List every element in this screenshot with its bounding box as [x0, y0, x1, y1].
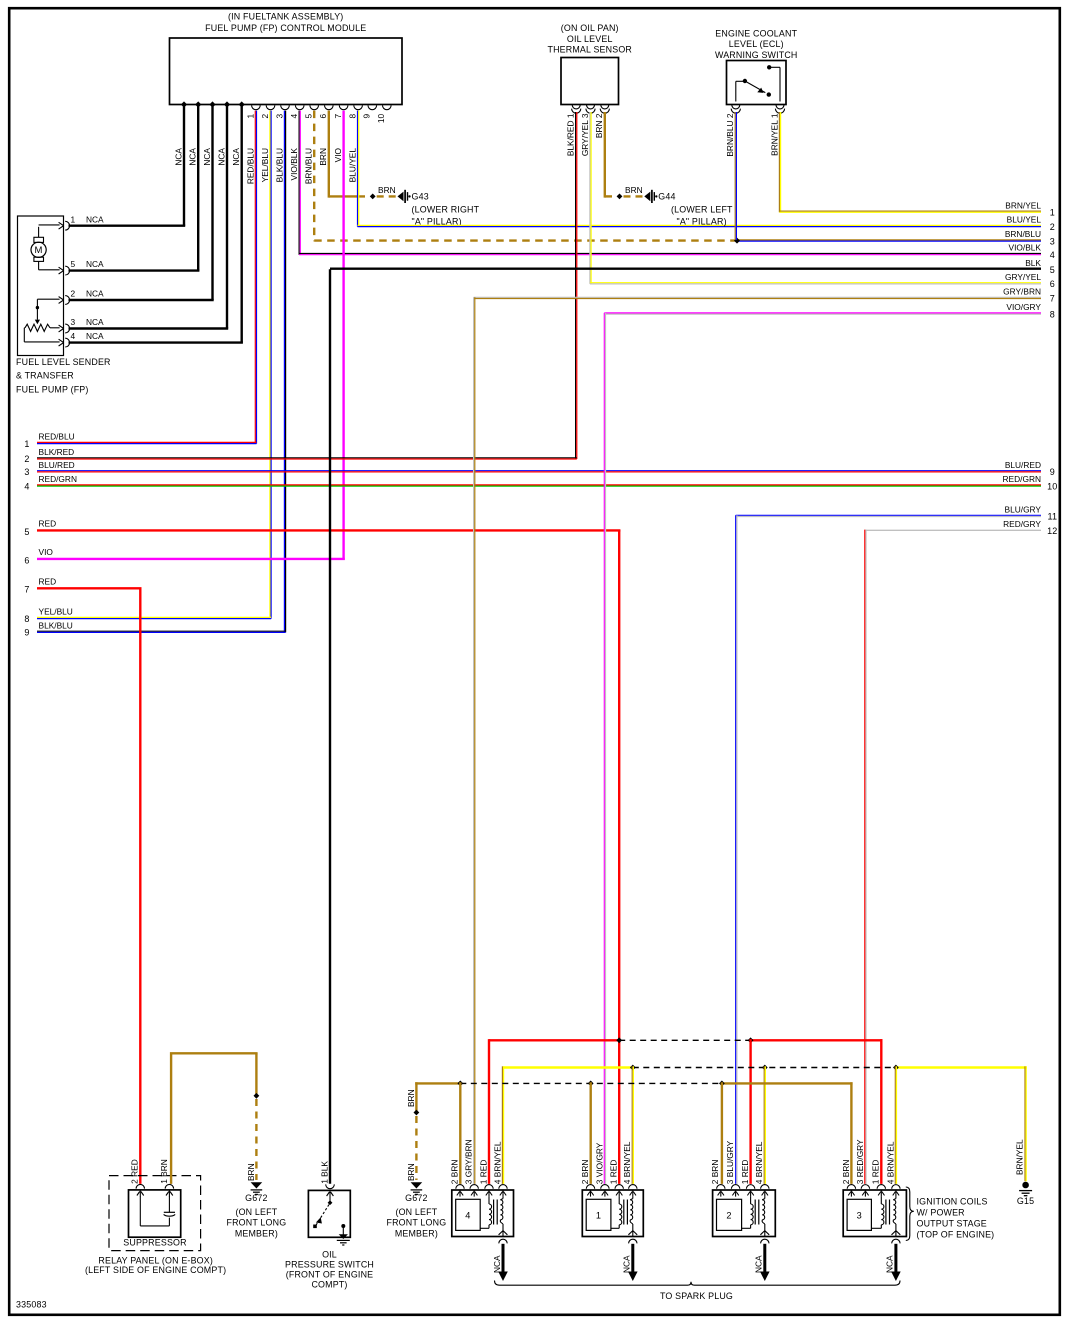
svg-text:3 RED/GRY: 3 RED/GRY: [855, 1139, 865, 1184]
svg-text:BRN/YEL 1: BRN/YEL 1: [769, 113, 779, 156]
svg-text:RELAY PANEL (ON E-BOX): RELAY PANEL (ON E-BOX): [98, 1255, 213, 1265]
svg-text:3: 3: [71, 317, 76, 327]
svg-text:NCA: NCA: [86, 289, 104, 299]
svg-text:BRN: BRN: [378, 185, 396, 195]
svg-text:YEL/BLU: YEL/BLU: [39, 607, 73, 617]
wire BRN/YEL ECL pin1 to right connector 1: [769, 112, 1054, 218]
engine coolant level switch box: [727, 61, 787, 105]
svg-text:(LEFT SIDE OF ENGINE COMPT): (LEFT SIDE OF ENGINE COMPT): [85, 1265, 226, 1275]
svg-text:IGNITION COILS: IGNITION COILS: [917, 1197, 988, 1207]
to spark plug caption: [660, 1291, 733, 1301]
wire BLK/RED sensor pin1 to left connector 2: [24, 112, 576, 464]
svg-text:BRN/BLU 2: BRN/BLU 2: [725, 113, 735, 156]
svg-text:2 BRN: 2 BRN: [580, 1160, 590, 1185]
wire BRN brown-bus to ground G672 (right): [406, 1082, 420, 1181]
svg-text:3: 3: [24, 467, 29, 477]
ignition coil 3 NCA spark output arrow: [885, 1239, 901, 1281]
wire VIO/BLK module pin4 to right connector 4: [289, 111, 1055, 260]
ignition coil 3 box: [843, 1185, 906, 1237]
svg-text:& TRANSFER: & TRANSFER: [16, 371, 74, 381]
svg-text:G43: G43: [412, 192, 429, 202]
ground G15: [1017, 1182, 1034, 1206]
svg-text:RED: RED: [39, 576, 57, 586]
svg-text:10: 10: [376, 113, 386, 123]
ignition coils brace: [906, 1187, 914, 1241]
svg-text:4: 4: [289, 113, 299, 118]
suppressor box: [129, 1190, 181, 1237]
svg-text:9: 9: [1050, 467, 1055, 477]
svg-text:G44: G44: [658, 192, 675, 202]
ignition coil 1 pin labels: [580, 1141, 632, 1184]
svg-text:RED: RED: [39, 518, 57, 528]
svg-text:9: 9: [24, 628, 29, 638]
oil pressure switch pin label: [319, 1161, 329, 1184]
svg-text:3: 3: [274, 113, 284, 118]
svg-text:2: 2: [260, 113, 270, 118]
svg-text:4 BRN/YEL: 4 BRN/YEL: [885, 1141, 895, 1184]
svg-text:FUEL LEVEL SENDER: FUEL LEVEL SENDER: [16, 357, 111, 367]
svg-text:GRY/BRN: GRY/BRN: [1003, 287, 1041, 297]
svg-text:MEMBER): MEMBER): [395, 1228, 438, 1238]
svg-text:4: 4: [1050, 250, 1055, 260]
wire BLK/BLU module pin3 to left connector 9: [24, 111, 285, 638]
suppressor pin labels: [130, 1159, 169, 1184]
svg-text:W/ POWER: W/ POWER: [917, 1208, 965, 1218]
svg-text:(IN FUELTANK ASSEMBLY): (IN FUELTANK ASSEMBLY): [228, 12, 343, 22]
wire GRY/YEL sensor pin3 to right connector 6: [580, 112, 1055, 289]
ignition coil 4 pin labels: [449, 1139, 502, 1184]
svg-text:NCA: NCA: [202, 148, 212, 166]
ignition coil 2 box: [713, 1185, 776, 1237]
svg-text:4: 4: [465, 1211, 470, 1221]
svg-text:(TOP OF ENGINE): (TOP OF ENGINE): [917, 1229, 995, 1239]
svg-text:G672: G672: [245, 1193, 267, 1203]
svg-text:1: 1: [24, 439, 29, 449]
svg-text:3 BLU/GRY: 3 BLU/GRY: [725, 1140, 735, 1184]
svg-text:7: 7: [333, 113, 343, 118]
svg-text:BLK/RED 1: BLK/RED 1: [566, 113, 576, 156]
ground G672 (left): [226, 1182, 286, 1238]
wire BRN/BLU ECL pin2 to junction: [725, 112, 736, 240]
ECL switch contact symbol: [736, 65, 780, 101]
wire NCA fuel-sender pin 2 to module: [69, 107, 214, 301]
svg-text:3 VIO/GRY: 3 VIO/GRY: [594, 1142, 604, 1184]
svg-text:9: 9: [362, 113, 372, 118]
module pin arcs 1-10: [252, 105, 392, 109]
svg-text:FUEL PUMP (FP): FUEL PUMP (FP): [16, 384, 89, 394]
wire BLU/RED left connector 3 to right connector 9: [24, 460, 1054, 477]
ignition coil 2 NCA spark output arrow: [754, 1239, 770, 1281]
wire RED left connector 5 down to ignition coil bus: [24, 518, 620, 1184]
svg-text:2: 2: [71, 289, 76, 299]
suppressor pin arcs: [136, 1184, 174, 1188]
fuel sender pin connectors: [59, 221, 70, 347]
wire BRN ignition coil brown bus: [415, 1081, 852, 1184]
svg-text:4 BRN/YEL: 4 BRN/YEL: [754, 1141, 764, 1184]
svg-text:1 RED: 1 RED: [740, 1160, 750, 1185]
fuel level sender box: [18, 216, 64, 356]
wire BRN module pin6 to ground G43: [318, 111, 365, 198]
svg-text:1: 1: [1050, 208, 1055, 218]
svg-text:NCA: NCA: [188, 148, 198, 166]
svg-text:FRONT LONG: FRONT LONG: [226, 1218, 286, 1228]
oil pressure switch pin arc: [326, 1184, 335, 1188]
svg-text:335083: 335083: [16, 1300, 47, 1310]
ECL switch pin arcs: [731, 105, 784, 113]
svg-text:1: 1: [245, 113, 255, 118]
wire RED left connector 7 down to suppressor pin2: [24, 576, 141, 1184]
ground G672 (right): [386, 1182, 446, 1238]
fuel pump control module caption: [205, 12, 366, 33]
svg-text:FUEL PUMP (FP) CONTROL MODULE: FUEL PUMP (FP) CONTROL MODULE: [205, 23, 366, 33]
svg-text:1 RED: 1 RED: [609, 1160, 619, 1185]
ignition coil 1 NCA spark output arrow: [622, 1239, 638, 1281]
svg-text:OIL: OIL: [322, 1250, 337, 1260]
wire GRY/BRN right connector 7 down to coil 4 pin3: [474, 287, 1055, 1184]
svg-text:G15: G15: [1017, 1196, 1034, 1206]
svg-text:12: 12: [1047, 526, 1057, 536]
svg-text:3: 3: [857, 1211, 862, 1221]
svg-text:RED/GRN: RED/GRN: [1003, 474, 1041, 484]
svg-text:M: M: [35, 245, 43, 256]
svg-text:PRESSURE SWITCH: PRESSURE SWITCH: [285, 1260, 374, 1270]
svg-text:NCA: NCA: [86, 331, 104, 341]
svg-text:BLK/RED: BLK/RED: [39, 447, 75, 457]
svg-text:BLU/YEL: BLU/YEL: [348, 148, 358, 183]
svg-text:NCA: NCA: [231, 148, 241, 166]
thermal sensor pin arcs: [572, 105, 610, 113]
svg-text:SUPPRESSOR: SUPPRESSOR: [123, 1237, 186, 1247]
svg-text:6: 6: [318, 113, 328, 118]
svg-text:BRN/YEL: BRN/YEL: [1005, 200, 1041, 210]
svg-text:NCA: NCA: [86, 259, 104, 269]
svg-text:2 BRN: 2 BRN: [841, 1160, 851, 1185]
oil level thermal sensor box: [561, 58, 619, 105]
wire RED/GRY right connector 12 down to coil 3 pin3: [865, 519, 1058, 1184]
svg-text:LEVEL (ECL): LEVEL (ECL): [729, 39, 784, 49]
wire NCA fuel-sender pin 3 to module: [69, 107, 229, 329]
svg-text:GRY/YEL: GRY/YEL: [1005, 272, 1041, 282]
svg-text:8: 8: [1050, 309, 1055, 319]
svg-text:FRONT LONG: FRONT LONG: [386, 1218, 446, 1228]
svg-text:RED/BLU: RED/BLU: [39, 432, 75, 442]
svg-text:NCA: NCA: [754, 1255, 764, 1273]
svg-text:1 BRN: 1 BRN: [159, 1159, 169, 1184]
svg-text:NCA: NCA: [885, 1255, 895, 1273]
svg-text:THERMAL SENSOR: THERMAL SENSOR: [547, 45, 632, 55]
svg-text:(ON LEFT: (ON LEFT: [235, 1207, 277, 1217]
svg-text:2: 2: [726, 1211, 731, 1221]
svg-text:1 BLK: 1 BLK: [319, 1161, 329, 1184]
wire YEL/BLU module pin2 to left connector 8: [24, 111, 271, 624]
relay panel dashed box: [109, 1176, 201, 1251]
svg-text:NCA: NCA: [173, 148, 183, 166]
svg-text:7: 7: [24, 585, 29, 595]
svg-text:BRN 2: BRN 2: [594, 113, 604, 138]
wire BRN suppressor pin1 to ground G672: [170, 1053, 259, 1184]
svg-text:8: 8: [24, 614, 29, 624]
ignition coil 4 box: [452, 1185, 514, 1237]
svg-text:RED/GRN: RED/GRN: [39, 474, 77, 484]
svg-text:BLK: BLK: [1025, 258, 1041, 268]
svg-text:ENGINE COOLANT: ENGINE COOLANT: [715, 28, 797, 38]
oil pressure switch captions: [285, 1250, 374, 1290]
svg-text:5: 5: [1050, 265, 1055, 275]
ignition coil 3 pin labels: [841, 1139, 896, 1184]
svg-text:2 BRN: 2 BRN: [710, 1160, 720, 1185]
svg-text:11: 11: [1047, 512, 1057, 522]
svg-text:MEMBER): MEMBER): [235, 1228, 278, 1238]
svg-text:RED/GRY: RED/GRY: [1003, 519, 1041, 529]
svg-text:2 RED: 2 RED: [130, 1159, 140, 1184]
module NCA pin diamonds: [181, 101, 245, 107]
svg-text:NCA: NCA: [216, 148, 226, 166]
svg-text:WARNING SWITCH: WARNING SWITCH: [715, 50, 798, 60]
svg-text:1: 1: [596, 1211, 601, 1221]
fuel pump motor M: [31, 225, 60, 270]
ground G43: [370, 185, 480, 226]
svg-text:GRY/YEL 3: GRY/YEL 3: [580, 113, 590, 156]
svg-text:10: 10: [1047, 481, 1057, 491]
wire RED ignition coil supply bus: [489, 1037, 883, 1184]
svg-text:BRN: BRN: [406, 1163, 416, 1181]
svg-text:OIL LEVEL: OIL LEVEL: [567, 34, 613, 44]
wire VIO/GRY right connector 8 down to coil 1 pin3: [604, 302, 1055, 1184]
svg-text:6: 6: [1050, 279, 1055, 289]
ground G44: [617, 185, 733, 226]
engine coolant level switch caption: [715, 28, 798, 60]
ignition coil 2 pin labels: [710, 1140, 764, 1184]
svg-text:(FRONT OF ENGINE: (FRONT OF ENGINE: [286, 1270, 374, 1280]
svg-text:YEL/BLU: YEL/BLU: [260, 148, 270, 182]
wire BLK right connector 5 down to oil pressure switch: [330, 258, 1055, 1184]
svg-text:BRN: BRN: [406, 1089, 416, 1107]
svg-text:BLK/BLU: BLK/BLU: [39, 620, 73, 630]
svg-text:NCA: NCA: [86, 214, 104, 224]
svg-text:5: 5: [71, 259, 76, 269]
svg-text:BLU/GRY: BLU/GRY: [1005, 505, 1042, 515]
oil pressure switch box: [308, 1190, 350, 1237]
svg-text:BLK/BLU: BLK/BLU: [274, 148, 284, 182]
svg-text:5: 5: [304, 113, 314, 118]
wire BRN sensor pin2 to ground G44: [594, 112, 612, 198]
svg-text:BRN/BLU: BRN/BLU: [304, 148, 314, 184]
wire NCA fuel-sender pin 5 to module: [69, 107, 200, 271]
svg-text:2 BRN: 2 BRN: [449, 1160, 459, 1185]
to spark plug brace: [495, 1281, 901, 1286]
ignition coils caption: [917, 1197, 995, 1240]
svg-text:VIO: VIO: [39, 547, 54, 557]
module pin numbers 1-10: [245, 113, 386, 123]
svg-text:BLU/YEL: BLU/YEL: [1007, 215, 1042, 225]
svg-text:BRN/YEL: BRN/YEL: [1014, 1139, 1024, 1175]
svg-text:4 BRN/YEL: 4 BRN/YEL: [622, 1141, 632, 1184]
svg-text:(ON LEFT: (ON LEFT: [395, 1207, 437, 1217]
svg-text:BRN: BRN: [625, 185, 643, 195]
svg-text:(LOWER RIGHT: (LOWER RIGHT: [412, 204, 480, 214]
svg-text:VIO: VIO: [333, 147, 343, 162]
svg-text:5: 5: [24, 527, 29, 537]
wire RED/GRN left connector 4 to right connector 10: [24, 474, 1057, 491]
wire BLU/GRY right connector 11 down to coil 2 pin3: [736, 505, 1057, 1184]
svg-text:8: 8: [348, 113, 358, 118]
svg-text:NCA: NCA: [492, 1255, 502, 1273]
svg-text:1 RED: 1 RED: [871, 1160, 881, 1185]
svg-text:1: 1: [71, 214, 76, 224]
svg-text:7: 7: [1050, 294, 1055, 304]
oil pressure switch contact symbol: [313, 1190, 350, 1245]
wire BRN/BLU module pin5 dashed to junction and right connector 3: [304, 111, 1055, 247]
wire NCA fuel-sender pin 4 to module: [69, 107, 243, 343]
svg-text:BRN/BLU: BRN/BLU: [1005, 229, 1041, 239]
svg-text:VIO/GRY: VIO/GRY: [1006, 302, 1041, 312]
svg-text:4: 4: [71, 331, 76, 341]
svg-text:TO SPARK PLUG: TO SPARK PLUG: [660, 1291, 733, 1301]
svg-text:NCA: NCA: [86, 317, 104, 327]
svg-text:OUTPUT STAGE: OUTPUT STAGE: [917, 1218, 987, 1228]
suppressor captions: [85, 1237, 226, 1275]
wire NCA fuel-sender pin 1 to module: [69, 107, 186, 226]
svg-text:4 BRN/YEL: 4 BRN/YEL: [492, 1141, 502, 1184]
svg-text:RED/BLU: RED/BLU: [245, 148, 255, 184]
ignition coil 4 NCA spark output arrow: [492, 1239, 508, 1281]
svg-text:3: 3: [1050, 236, 1055, 246]
svg-text:BRN: BRN: [246, 1163, 256, 1181]
svg-text:G672: G672: [405, 1193, 427, 1203]
svg-text:2: 2: [24, 454, 29, 464]
svg-text:BRN: BRN: [318, 148, 328, 166]
fuel sender caption: [16, 357, 111, 395]
wire RED/BLU module pin1 to left connector 1: [24, 111, 256, 449]
svg-text:1 RED: 1 RED: [478, 1160, 488, 1185]
svg-text:4: 4: [24, 481, 29, 491]
svg-text:(LOWER LEFT: (LOWER LEFT: [671, 204, 733, 214]
fuel pump control module box: [170, 38, 403, 105]
wire BRN/YEL bus to ground G15: [1014, 1066, 1026, 1181]
svg-text:COMPT): COMPT): [311, 1279, 347, 1289]
suppressor capacitor: [137, 1190, 175, 1226]
svg-text:"A" PILLAR): "A" PILLAR): [677, 216, 727, 226]
fuel level sender resistor: [24, 299, 59, 342]
wire BRN/YEL ignition coil ground bus: [502, 1065, 1026, 1184]
svg-text:BLU/RED: BLU/RED: [39, 460, 75, 470]
wire VIO module pin7 to left connector 6: [24, 111, 344, 566]
oil level thermal sensor caption: [547, 23, 632, 55]
svg-text:(ON OIL PAN): (ON OIL PAN): [561, 23, 619, 33]
svg-text:VIO/BLK: VIO/BLK: [289, 148, 299, 181]
svg-text:NCA: NCA: [622, 1255, 632, 1273]
diagram number 335083: [16, 1300, 47, 1310]
svg-text:VIO/BLK: VIO/BLK: [1009, 243, 1042, 253]
ignition coil 1 box: [582, 1185, 643, 1237]
svg-text:2: 2: [1050, 222, 1055, 232]
svg-text:3 GRY/BRN: 3 GRY/BRN: [464, 1139, 474, 1184]
svg-text:6: 6: [24, 555, 29, 565]
wire BLU/YEL module pin8 to right connector 2: [348, 111, 1055, 232]
svg-text:BLU/RED: BLU/RED: [1005, 460, 1041, 470]
